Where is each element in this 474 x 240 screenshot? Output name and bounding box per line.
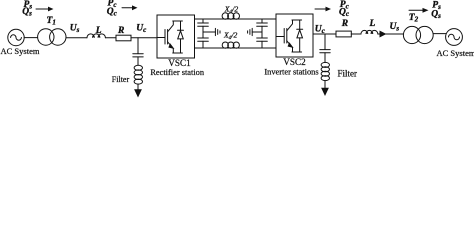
svg-text:Filter: Filter bbox=[338, 69, 358, 79]
svg-text:Filter: Filter bbox=[112, 75, 130, 84]
svg-text:AC System: AC System bbox=[1, 46, 40, 56]
wire R to VSC1 bbox=[131, 37, 157, 39]
DC capacitor C1 left bbox=[198, 19, 209, 48]
ground right DC midpoint bbox=[248, 28, 262, 35]
current arrowhead on wire bbox=[380, 31, 385, 36]
filter capacitor left bbox=[133, 54, 143, 66]
Pc Qc arrow right bbox=[315, 7, 331, 12]
VSC1 box bbox=[157, 15, 195, 58]
Ps Qs arrow left bbox=[36, 7, 54, 12]
svg-text:Us: Us bbox=[70, 23, 80, 34]
svg-text:R: R bbox=[341, 19, 348, 29]
filter branch stem left bbox=[137, 38, 139, 54]
wire source to T1 bbox=[24, 37, 37, 39]
svg-text:VSC1: VSC1 bbox=[168, 58, 191, 68]
ac source G2 right bbox=[446, 29, 463, 46]
svg-text:VSC2: VSC2 bbox=[283, 57, 306, 67]
transformer T1 bbox=[38, 29, 66, 45]
transformer T2 bbox=[403, 26, 433, 43]
svg-text:Us: Us bbox=[390, 22, 400, 33]
Ps Qs arrow right bbox=[409, 8, 429, 13]
svg-text:L: L bbox=[369, 19, 376, 29]
smoothing reactor Xd/2 bottom bbox=[222, 42, 239, 48]
svg-text:L: L bbox=[95, 26, 102, 36]
resistor R left bbox=[116, 35, 131, 41]
svg-text:R: R bbox=[117, 26, 124, 36]
svg-text:Qc: Qc bbox=[107, 7, 117, 17]
diode D2 in VSC2 bbox=[292, 20, 303, 52]
wire L to R bbox=[105, 37, 116, 39]
diode D1 in VSC1 bbox=[173, 21, 184, 53]
filter ground arrow right bbox=[322, 81, 328, 95]
inductor L left bbox=[87, 34, 105, 38]
svg-text:Rectifier station: Rectifier station bbox=[150, 68, 205, 77]
wire T2 to source right bbox=[433, 33, 446, 35]
DC bottom rail bbox=[195, 47, 277, 49]
filter inductor right bbox=[321, 62, 329, 80]
IGBT Q2 in VSC2 bbox=[276, 20, 292, 52]
wire VSC2 to R right bbox=[313, 33, 336, 35]
svg-text:Inverter stations: Inverter stations bbox=[264, 67, 318, 76]
filter branch stem right bbox=[324, 34, 326, 49]
svg-text:Qs: Qs bbox=[22, 7, 32, 18]
svg-text:T2: T2 bbox=[409, 13, 419, 24]
ground left DC midpoint bbox=[203, 28, 220, 35]
svg-text:AC System: AC System bbox=[437, 48, 474, 58]
filter inductor left bbox=[134, 65, 142, 84]
wire L to T2 bbox=[378, 33, 404, 35]
svg-text:Qs: Qs bbox=[431, 10, 441, 21]
inductor L right bbox=[361, 30, 378, 34]
Pc Qc arrow left bbox=[122, 5, 138, 10]
ac source G1 left bbox=[8, 29, 24, 45]
svg-text:Uc: Uc bbox=[136, 23, 146, 34]
filter ground arrow left bbox=[135, 84, 141, 96]
VSC2 box bbox=[276, 14, 313, 57]
smoothing reactor Xd/2 top bbox=[222, 13, 239, 19]
svg-text:Qc: Qc bbox=[339, 7, 349, 18]
resistor R right bbox=[336, 31, 351, 37]
IGBT Q1 in VSC1 bbox=[157, 21, 173, 53]
wire T1 to L bbox=[66, 37, 87, 39]
svg-text:T1: T1 bbox=[47, 16, 56, 27]
svg-text:Uc: Uc bbox=[315, 25, 325, 36]
filter capacitor right bbox=[320, 50, 330, 63]
DC capacitor C2 right bbox=[257, 19, 268, 48]
DC top rail bbox=[195, 18, 277, 20]
wire R to L right bbox=[351, 33, 361, 35]
